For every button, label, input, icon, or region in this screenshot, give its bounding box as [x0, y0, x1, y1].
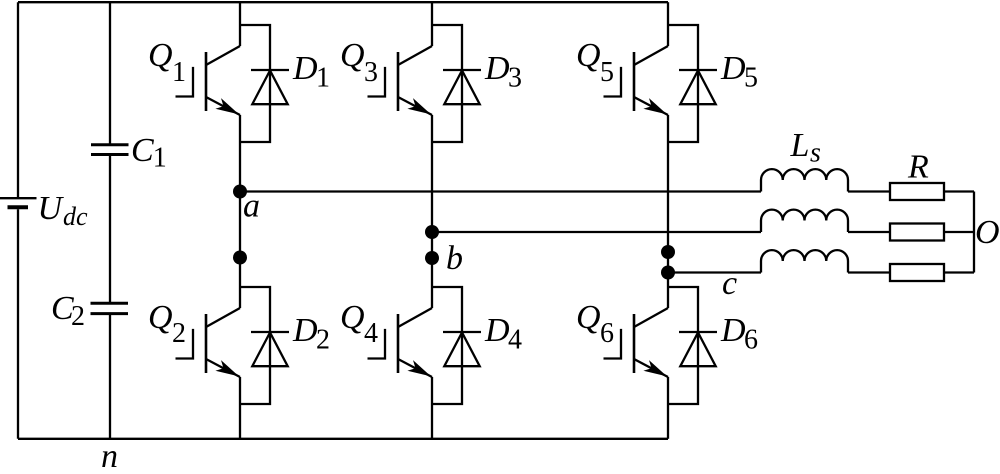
resistor R phase b: [890, 224, 944, 241]
wire top DC bus: [18, 1, 668, 3]
svg-text:D: D: [484, 312, 510, 349]
wire inductor to resistor phase c: [848, 271, 890, 273]
diode D3: [443, 70, 481, 104]
svg-text:2: 2: [172, 318, 186, 349]
capacitor C2: [91, 303, 129, 313]
inductor Ls phase a: [761, 169, 848, 191]
svg-text:a: a: [243, 188, 260, 225]
label D2: [292, 312, 330, 355]
wire diode D4 branch: [432, 287, 462, 404]
wire phase a collector segment: [239, 2, 241, 46]
svg-text:Q: Q: [148, 299, 173, 336]
transistor Q5 (IGBT): [604, 46, 669, 115]
svg-text:Q: Q: [576, 299, 601, 336]
wire phase b collector segment: [431, 2, 433, 46]
label D5: [720, 50, 758, 93]
svg-text:5: 5: [744, 62, 758, 93]
wire diode D5 branch: [668, 25, 698, 142]
wire phase a midpoint segment: [239, 115, 241, 308]
wire phase c collector segment: [667, 2, 669, 46]
svg-text:5: 5: [600, 57, 614, 88]
svg-text:D: D: [292, 312, 318, 349]
label Q5: [576, 37, 614, 88]
wire diode D3 branch: [432, 25, 462, 142]
diode D5: [679, 70, 717, 104]
label Q3: [340, 37, 378, 88]
label D4: [484, 312, 522, 355]
svg-text:Q: Q: [148, 37, 173, 74]
capacitor C1: [91, 145, 129, 155]
transistor Q1 (IGBT): [176, 46, 241, 115]
svg-text:b: b: [446, 240, 463, 277]
battery Udc: [0, 198, 37, 207]
label D3: [484, 50, 522, 93]
wire diode D2 branch: [240, 287, 270, 404]
wire diode D1 branch: [240, 25, 270, 142]
resistor R phase c: [890, 264, 944, 281]
svg-text:O: O: [975, 214, 1000, 251]
label D1: [292, 50, 330, 93]
node label O: [975, 214, 1000, 251]
svg-text:L: L: [790, 127, 810, 164]
resistor R phase a: [890, 183, 944, 200]
transistor Q6 (IGBT): [604, 308, 669, 377]
svg-text:1: 1: [172, 57, 186, 88]
svg-text:s: s: [810, 138, 821, 169]
diode D6: [679, 332, 717, 366]
svg-text:3: 3: [508, 62, 522, 93]
node a: [233, 185, 247, 199]
label C1: [131, 132, 167, 174]
node b: [425, 225, 439, 239]
junction c1: [661, 245, 675, 259]
svg-text:4: 4: [364, 318, 378, 349]
label Q4: [340, 299, 378, 349]
transistor Q2 (IGBT): [176, 308, 241, 377]
svg-text:Q: Q: [340, 37, 365, 74]
wire phase a output line: [240, 190, 761, 192]
svg-text:4: 4: [508, 324, 522, 355]
svg-text:Q: Q: [340, 299, 365, 336]
junction b2: [425, 251, 439, 265]
svg-text:1: 1: [153, 143, 167, 174]
label Q1: [148, 37, 186, 88]
node c: [661, 266, 675, 280]
wire bottom DC bus: [18, 438, 668, 440]
svg-text:D: D: [720, 50, 746, 87]
wire capacitor branch lower: [109, 314, 111, 439]
wire resistor to bus phase a: [944, 190, 974, 192]
wire phase a bottom segment: [239, 377, 241, 439]
svg-text:c: c: [722, 265, 737, 302]
svg-text:6: 6: [600, 318, 614, 349]
wire between C1 and C2: [109, 155, 111, 303]
label D6: [720, 312, 758, 355]
wire phase c output line: [668, 271, 761, 273]
junction a2: [233, 251, 247, 265]
svg-text:2: 2: [316, 324, 330, 355]
label Q6: [576, 299, 614, 349]
svg-text:D: D: [720, 312, 746, 349]
wire inductor to resistor phase b: [848, 231, 890, 233]
diode D4: [443, 332, 481, 366]
wire inductor to resistor phase a: [848, 190, 890, 192]
svg-text:D: D: [292, 50, 318, 87]
wire resistor to bus phase c: [944, 271, 974, 273]
wire battery branch lower: [17, 209, 19, 438]
svg-text:dc: dc: [63, 202, 88, 231]
wire right output bus: [973, 192, 975, 273]
svg-text:1: 1: [316, 62, 330, 93]
svg-text:Q: Q: [576, 37, 601, 74]
label C2: [51, 290, 85, 332]
svg-text:3: 3: [364, 57, 378, 88]
node label b: [446, 240, 463, 277]
diode D1: [251, 70, 289, 104]
node label a: [243, 188, 260, 225]
wire phase c bottom segment: [667, 377, 669, 439]
transistor Q3 (IGBT): [368, 46, 433, 115]
svg-text:R: R: [907, 149, 929, 186]
label Udc: [38, 190, 89, 231]
inductor Ls phase c: [761, 250, 848, 272]
wire phase b output line: [432, 231, 761, 233]
svg-text:C: C: [131, 132, 154, 169]
wire battery branch upper: [17, 2, 19, 197]
transistor Q4 (IGBT): [368, 308, 433, 377]
wire phase b midpoint segment: [431, 115, 433, 308]
label Ls: [790, 127, 822, 169]
diode D2: [251, 332, 289, 366]
label Q2: [148, 299, 186, 349]
label R: [907, 149, 929, 186]
wire phase b bottom segment: [431, 377, 433, 439]
wire phase c midpoint segment: [667, 115, 669, 308]
svg-text:U: U: [38, 190, 65, 227]
wire resistor to bus phase b: [944, 231, 974, 233]
node label n: [101, 438, 118, 474]
svg-text:2: 2: [71, 301, 85, 332]
svg-text:6: 6: [744, 324, 758, 355]
wire diode D6 branch: [668, 287, 698, 404]
inductor Ls phase b: [761, 210, 848, 232]
svg-text:D: D: [484, 50, 510, 87]
wire capacitor branch upper: [109, 2, 111, 144]
node label c: [722, 265, 737, 302]
svg-text:n: n: [101, 438, 118, 474]
